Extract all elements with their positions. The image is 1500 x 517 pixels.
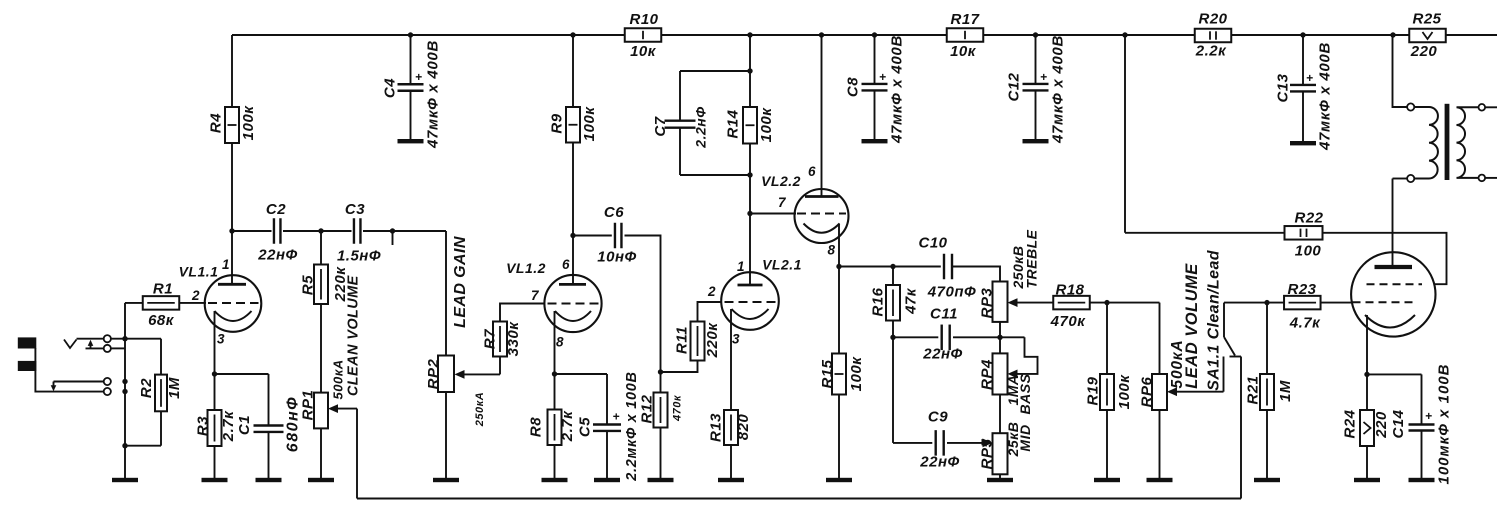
svg-text:+: + [1306,71,1313,85]
svg-text:VL2.2: VL2.2 [761,173,801,189]
resistor R21 [1244,303,1294,478]
svg-text:2.2к: 2.2к [1195,42,1227,59]
wire tip contact to R2 corner [111,338,161,340]
wire R7 to VL1.2 grid [500,304,545,322]
wire RP3 wiper [1008,298,1054,307]
ground [542,478,568,482]
wire RP5 wiper arrow [983,439,993,448]
jack tip symbol [64,340,77,349]
triode VL2.1 [721,256,802,410]
svg-text:2: 2 [191,288,200,303]
svg-text:C11: C11 [930,305,958,322]
wire R5 to RP1 [320,304,322,393]
wire anode node to C2 [232,230,272,232]
wire R18 to RP6 corner [1090,302,1160,304]
resistor R16 [869,267,919,338]
resistor R24 [1341,374,1390,478]
svg-text:330к: 330к [505,321,522,357]
potentiometer RP2 [425,356,486,428]
potentiometer RP4 [978,353,1007,394]
wire primary bottom stub [1393,178,1408,180]
transformer secondary winding [1457,107,1479,178]
resistor R22 [1285,209,1324,259]
svg-text:10нФ: 10нФ [597,248,636,265]
wire bottom feedback bus [357,498,1241,500]
capacitor C13 [1274,35,1333,151]
svg-text:R23: R23 [1287,281,1316,298]
svg-text:3: 3 [217,332,225,347]
svg-text:R3: R3 [194,416,211,436]
junction [408,32,413,37]
capacitor C14 [1390,364,1453,485]
svg-text:+: + [415,70,422,84]
junction [1033,32,1038,37]
jack terminal 4 [104,388,111,395]
wire RP4 wiper arrow [1008,370,1018,379]
svg-text:1M: 1M [1277,380,1294,402]
wire cathode to C14 [1367,373,1422,375]
svg-text:+: + [612,410,619,424]
svg-text:VL1.2: VL1.2 [506,260,546,276]
ground [433,478,459,482]
svg-text:R22: R22 [1294,209,1323,226]
wire R16 node to C11 [893,336,938,338]
svg-text:820: 820 [735,414,752,441]
wire secondary stub bottom [1485,177,1497,179]
capacitor C11 [922,305,962,362]
wire R2 bottom to ground bus [125,445,161,447]
wire RP3 to RP4 [999,322,1001,354]
ground [862,139,888,143]
svg-text:C2: C2 [266,201,286,218]
svg-text:R10: R10 [629,11,658,28]
junction [1104,300,1109,305]
ground [1147,478,1173,482]
junction [747,32,752,37]
wire switch common to R23 [1224,302,1284,304]
ground [308,478,334,482]
svg-text:7: 7 [778,195,787,210]
svg-text:SA1.1 Clean/Lead: SA1.1 Clean/Lead [1206,249,1223,390]
resistor R7 [481,321,522,357]
ground [1254,478,1280,482]
input jack plug [18,337,37,371]
resistor R9 [548,106,598,143]
svg-text:7: 7 [531,288,540,303]
wire switch to bottom bus [1240,357,1242,499]
svg-text:2.2нФ: 2.2нФ [692,106,708,148]
wire RP4 to RP5 [999,395,1001,434]
svg-text:250кА: 250кА [474,392,486,427]
potentiometer RP5 [978,433,1007,474]
junction [570,233,575,238]
jack switch arrow up [88,340,94,349]
wire R22 to screen [1323,233,1447,284]
svg-text:100: 100 [1295,242,1322,259]
svg-text:2: 2 [707,284,716,299]
svg-text:47мкФ х 400В: 47мкФ х 400В [1049,35,1066,144]
jack terminal 1 [104,335,111,342]
svg-text:1M: 1M [166,377,183,399]
capacitor C10 [918,234,976,300]
wire cathode follower to C10 [839,266,941,268]
svg-text:22нФ: 22нФ [919,453,959,470]
svg-text:2.7к: 2.7к [220,410,237,442]
junction [747,172,752,177]
svg-text:220: 220 [1373,411,1390,439]
svg-text:RP1: RP1 [299,390,316,421]
junction [390,228,395,233]
svg-text:C6: C6 [604,204,624,221]
svg-text:R15: R15 [819,359,836,388]
jack switch arrow down [51,382,57,392]
resistor R1 [143,280,180,329]
svg-text:10к: 10к [630,43,657,60]
wire RP2 bottom lead [445,392,447,478]
junction [1300,32,1305,37]
svg-text:R25: R25 [1412,10,1441,27]
svg-text:R18: R18 [1055,281,1084,298]
junction [997,335,1002,340]
wire RP1 wiper [328,404,357,413]
ground [1290,141,1316,145]
wire R9 to anode node [572,143,574,236]
resistor R5 [299,265,349,305]
svg-text:CLEAN VOLUME: CLEAN VOLUME [346,274,362,396]
wire riser to C9 [893,442,932,444]
transformer primary terminal top [1407,103,1414,110]
ground [1409,478,1435,482]
wire R23 to output tube grid [1321,302,1353,304]
svg-text:100к: 100к [1116,374,1133,410]
ground [826,478,852,482]
wire RP1 bottom lead [320,428,322,478]
capacitor C4 [381,35,441,149]
svg-text:RP3: RP3 [978,288,995,319]
svg-text:R7: R7 [481,329,498,349]
junction [122,379,127,384]
junction [747,68,752,73]
junction [122,389,127,394]
wire R14 top lead [749,35,751,107]
svg-text:470к: 470к [671,394,683,422]
junction [1364,372,1369,377]
svg-text:LEAD VOLUME: LEAD VOLUME [1183,263,1201,389]
svg-text:MID: MID [1017,424,1033,451]
junction [819,32,824,37]
wire input ground bus [124,303,126,478]
svg-text:R4: R4 [207,113,224,133]
wire R9 top lead [572,35,574,107]
wire screen feed riser [1124,35,1126,233]
svg-text:R1: R1 [153,280,173,297]
svg-text:C9: C9 [928,408,948,425]
svg-text:+: + [879,70,886,84]
wire RP4 wiper loop [1016,337,1038,374]
wire RP5 bottom lead [999,474,1001,478]
svg-text:R5: R5 [299,275,316,295]
wire stub at node [392,231,394,245]
wire R5 top lead [320,231,322,265]
wire anode node to C6 [573,235,612,237]
junction [212,371,217,376]
potentiometer RP3 [978,282,1007,322]
wire R14 to VL2.1 anode [749,144,751,286]
svg-text:R19: R19 [1084,376,1101,405]
resistor R12 [638,372,683,478]
ground [256,478,282,482]
resistor R25 [1409,10,1446,60]
svg-text:VL1.1: VL1.1 [179,263,219,279]
svg-text:R2: R2 [138,378,155,398]
svg-text:LEAD GAIN: LEAD GAIN [452,236,469,328]
svg-text:100к: 100к [758,107,775,143]
wire wiper down to bottom bus [356,409,358,499]
svg-text:C5: C5 [576,417,593,437]
transformer core [1445,104,1450,180]
wire cathode node to C1 [215,373,269,375]
svg-text:R12: R12 [638,394,655,423]
junction [658,369,663,374]
junction [1390,32,1395,37]
resistor R14 [724,107,775,144]
capacitor C9 [919,408,959,470]
svg-text:6: 6 [808,164,816,179]
svg-text:68к: 68к [148,312,175,329]
svg-text:1: 1 [222,257,230,272]
ground [987,478,1013,482]
wire R11 to VL2.1 grid [698,302,723,322]
triode VL2.2 [761,35,848,354]
wire R1 to VL1.1 grid [179,302,206,304]
svg-text:1: 1 [737,259,745,274]
capacitor C5 [576,371,640,481]
wire B+ rail segment 2 [662,34,948,36]
svg-text:R13: R13 [707,413,724,442]
resistor R10 [625,11,662,60]
svg-text:470пФ: 470пФ [927,283,976,300]
svg-text:C7: C7 [652,116,669,136]
svg-text:C10: C10 [918,234,947,251]
junction [318,228,323,233]
svg-text:22нФ: 22нФ [922,345,962,362]
wire secondary stub top [1485,106,1497,108]
ground [398,139,424,143]
junction [1122,32,1127,37]
svg-text:RP6: RP6 [1138,377,1155,408]
triode VL1.1 [179,231,262,374]
svg-text:47мкФ х 400В: 47мкФ х 400В [424,40,441,149]
transformer secondary terminal top [1479,104,1486,111]
svg-text:100к: 100к [581,106,598,142]
wire C10 to RP3 [952,267,1000,282]
wire rail to transformer primary [1393,35,1408,107]
ground [202,478,228,482]
ground [648,478,674,482]
svg-text:R20: R20 [1198,10,1227,27]
wire break contact [54,381,104,383]
transformer primary winding [1414,107,1438,179]
junction [890,335,895,340]
svg-text:R9: R9 [548,113,565,133]
svg-text:R8: R8 [527,417,544,437]
svg-text:C1: C1 [236,415,253,435]
svg-text:100к: 100к [848,356,865,392]
svg-text:+: + [1040,70,1047,84]
junction [836,264,841,269]
junction [122,336,127,341]
svg-text:22нФ: 22нФ [257,246,297,263]
resistor R20 [1195,10,1232,59]
ground [594,478,620,482]
svg-text:VL2.1: VL2.1 [762,256,802,272]
svg-text:2.7к: 2.7к [559,410,576,442]
svg-text:47мкФ х 400В: 47мкФ х 400В [888,35,905,144]
svg-text:47к: 47к [902,287,919,315]
svg-text:500кА: 500кА [331,359,346,399]
svg-text:R11: R11 [673,326,690,354]
capacitor C6 [597,204,636,266]
wire RP2 top lead [445,231,447,356]
wire C6 to R11 node [625,236,661,373]
svg-text:100мкФ х 100В: 100мкФ х 100В [1435,364,1452,485]
svg-text:C12: C12 [1005,72,1022,101]
svg-text:RP4: RP4 [978,359,995,390]
triode VL1.2 [506,236,602,375]
wire VL2.2 grid lead [750,213,796,215]
wire RP6 top lead [1159,303,1161,374]
switch SA1.1 [1224,303,1241,357]
resistor R23 [1284,281,1321,332]
wire R11 bottom lead [661,361,698,373]
svg-text:100к: 100к [240,105,257,141]
wire C3 to RP2 corner [363,230,446,232]
transformer secondary terminal bottom [1479,175,1486,182]
svg-text:RP2: RP2 [425,359,442,390]
svg-text:C14: C14 [1390,409,1407,438]
svg-text:R24: R24 [1341,409,1358,438]
pentode output tube [1351,179,1435,375]
svg-text:+: + [1425,409,1432,423]
jack terminal 2 [104,345,111,352]
wire C9 to RP5 wiper [947,442,984,444]
junction [122,443,127,448]
svg-text:TREBLE: TREBLE [1023,229,1039,288]
junction [552,371,557,376]
svg-text:3: 3 [732,332,740,347]
wire jack sleeve lead [35,348,103,392]
wire B+ rail segment 3 [984,34,1196,36]
svg-text:47мкФ х 400В: 47мкФ х 400В [1316,42,1333,151]
resistor R17 [947,11,984,60]
capacitor C12 [1005,35,1066,144]
resistor R11 [673,322,721,361]
ground [1023,139,1049,143]
svg-text:C4: C4 [381,78,398,98]
svg-text:220: 220 [1410,43,1438,60]
resistor R18 [1050,281,1090,330]
capacitor C7 [652,71,750,175]
svg-text:10к: 10к [950,43,977,60]
wire B+ rail segment 5 [1446,34,1497,36]
wire cathode node to C5 [555,373,608,375]
svg-text:RP5: RP5 [978,439,995,470]
wire R2 bottom lead [160,411,162,445]
junction [229,228,234,233]
svg-text:R21: R21 [1244,375,1261,404]
wire R2 top lead [160,339,162,375]
wire riser to R22 [1125,232,1284,234]
wire RP6 wiper [1167,387,1224,396]
svg-text:BASS: BASS [1017,373,1033,414]
wire C9 riser [892,337,894,443]
resistor R13 [707,410,752,478]
svg-text:470к: 470к [1050,313,1087,330]
wire R4 top lead [231,35,233,107]
capacitor C8 [844,35,905,144]
wire terminal 2 to ground bus [111,347,125,349]
svg-text:8: 8 [556,335,564,350]
junction [747,211,752,216]
svg-text:220к: 220к [704,322,721,359]
svg-text:2.2мкФ х 100В: 2.2мкФ х 100В [624,371,640,481]
resistor R3 [194,374,237,478]
ground [1094,478,1120,482]
capacitor C3 [337,201,381,265]
svg-text:8: 8 [827,243,835,258]
wire RP6 bottom lead [1159,410,1161,478]
ground [112,478,138,482]
svg-text:C3: C3 [345,201,365,218]
ground [718,478,744,482]
wire R4 to VL1.1 anode node [231,143,233,231]
wire tip symbol to terminal 1 [77,338,104,340]
wire R1 left lead [125,302,143,304]
wire terminal 2 stub [86,347,104,349]
wire wiper riser to switch [1223,357,1225,392]
potentiometer RP1 [299,359,345,428]
transformer primary terminal bottom [1407,175,1414,182]
capacitor C1 [236,374,302,478]
jack terminal 3 [104,378,111,385]
wire RP2 wiper [455,370,501,379]
wire B+ rail segment 1 [232,34,625,36]
resistor R4 [207,105,257,143]
potentiometer RP6 [1138,340,1186,410]
svg-text:C13: C13 [1274,73,1291,102]
wire C2 to C3 [283,230,352,232]
junction [1264,300,1269,305]
wire B+ rail segment 4 [1232,34,1410,36]
svg-text:6: 6 [562,257,570,272]
capacitor C2 [257,201,297,264]
svg-text:R14: R14 [724,109,741,138]
svg-text:R16: R16 [869,287,886,316]
junction [872,32,877,37]
svg-text:R17: R17 [950,11,979,28]
junction [890,264,895,269]
svg-text:1.5нФ: 1.5нФ [337,247,381,264]
svg-text:C8: C8 [844,77,861,97]
wire R7 bottom lead [499,357,501,375]
wire C11 to bass node [953,336,1025,338]
resistor R19 [1084,303,1133,478]
resistor R8 [527,374,576,478]
resistor R2 [138,375,183,412]
junction [570,32,575,37]
svg-text:4.7к: 4.7к [1289,314,1321,331]
resistor R15 [819,354,865,479]
